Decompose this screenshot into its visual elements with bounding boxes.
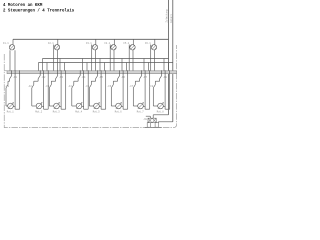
svg-text:Mot_8: Mot_8 <box>157 111 165 114</box>
svg-text:4 Motoren an KKM: 4 Motoren an KKM <box>3 4 43 8</box>
terminal strip X1 <box>4 70 176 74</box>
svg-text:Mot_1: Mot_1 <box>7 111 15 114</box>
overload contact F5.2 <box>85 81 96 106</box>
svg-text:-F4: -F4 <box>68 85 73 88</box>
svg-text:Mot_7: Mot_7 <box>137 111 145 114</box>
breaker F6.1 <box>145 39 157 50</box>
wire branch legs <box>144 59 149 71</box>
overload contact F6.2 <box>107 81 118 106</box>
contactor contact K1 <box>10 74 18 82</box>
wire breaker output pair <box>92 45 96 71</box>
motor M4 <box>75 103 83 114</box>
svg-text:2 Steuerungen / 4 Trennrelai: 2 Steuerungen / 4 Trennrelais <box>3 9 75 14</box>
svg-text:-F8: -F8 <box>149 85 154 88</box>
svg-text:F4.1: F4.1 <box>105 42 111 45</box>
breaker F1.1 <box>3 39 15 50</box>
distribution wire lower <box>39 63 173 71</box>
net label L2 <box>170 13 173 22</box>
overload contact F8.2 <box>149 81 160 106</box>
wire branch legs <box>60 59 65 71</box>
svg-text:-F2: -F2 <box>28 85 33 88</box>
wire breaker F1.1 output pair <box>10 50 15 71</box>
net label L1 <box>165 9 168 22</box>
wire motor legs <box>59 74 66 110</box>
svg-text:Mot_4: Mot_4 <box>75 111 83 114</box>
svg-text:Zuleitung: Zuleitung <box>165 9 168 22</box>
contactor contact K5 <box>96 74 104 82</box>
wire branch legs <box>164 59 169 71</box>
motor M1 <box>7 103 15 114</box>
breaker F4.1 <box>105 39 117 50</box>
svg-text:Mot_2: Mot_2 <box>35 111 43 114</box>
svg-text:F6.1: F6.1 <box>145 42 151 45</box>
breaker F5.1 <box>124 39 136 50</box>
supply line L1 <box>168 0 170 115</box>
heater X8 body <box>143 118 156 123</box>
motor M7 <box>137 103 145 114</box>
wire branch legs <box>122 59 127 71</box>
contactor contact K3 <box>56 74 64 82</box>
contactor contact K6 <box>118 74 126 82</box>
svg-text:Extern: Extern <box>170 13 173 22</box>
breaker F3.1 <box>86 39 98 50</box>
wire motor legs <box>82 74 89 110</box>
title text <box>3 4 75 14</box>
overload contact F1.2 <box>5 81 10 106</box>
svg-text:-F1: -F1 <box>5 85 10 88</box>
overload contact F2.2 <box>28 81 38 106</box>
wire branch legs <box>83 59 88 71</box>
svg-text:Mot_5: Mot_5 <box>93 111 101 114</box>
wire branch legs <box>43 59 48 71</box>
bus wire <box>13 38 169 40</box>
wire breaker output pair <box>151 45 155 71</box>
svg-text:-F7: -F7 <box>129 85 134 88</box>
svg-text:F5.1: F5.1 <box>124 42 130 45</box>
contactor contact K8 <box>160 74 168 82</box>
enclosure border <box>4 45 176 128</box>
contactor contact K7 <box>140 74 148 82</box>
wire branch legs <box>100 59 105 71</box>
motor M3 <box>53 103 61 114</box>
motor M6 <box>115 103 123 114</box>
svg-text:-X8: -X8 <box>143 118 148 121</box>
svg-text:-F3: -F3 <box>45 85 50 88</box>
supply line L2 <box>172 0 174 122</box>
wire breaker output pair <box>54 45 58 71</box>
wire motor legs <box>99 74 106 110</box>
svg-text:-F6: -F6 <box>107 85 112 88</box>
overload contact F7.2 <box>129 81 140 106</box>
breaker F2.1 <box>48 39 60 50</box>
svg-text:F3.1: F3.1 <box>86 42 92 45</box>
wire motor legs <box>42 74 49 110</box>
svg-text:-F5: -F5 <box>85 85 90 88</box>
svg-text:F2.1: F2.1 <box>48 42 54 45</box>
svg-text:Mot_6: Mot_6 <box>115 111 123 114</box>
contactor contact K2 <box>38 74 46 82</box>
overload contact F3.2 <box>45 81 56 106</box>
wire breaker output pair <box>129 45 133 71</box>
wire motor legs <box>13 74 20 110</box>
motor M2 <box>35 103 43 114</box>
contactor contact K4 <box>78 74 86 82</box>
wire breaker output pair <box>110 45 114 71</box>
distribution wire upper <box>43 58 169 60</box>
motor M5 <box>93 103 101 114</box>
heater X8 feet <box>145 123 162 128</box>
svg-text:Mot_3: Mot_3 <box>53 111 61 114</box>
overload contact F4.2 <box>68 81 79 106</box>
wire motor legs <box>163 74 170 110</box>
wire motor legs <box>121 74 128 110</box>
wire motor legs <box>143 74 150 110</box>
heater X8 leads <box>146 115 173 123</box>
svg-text:F1.1: F1.1 <box>3 42 9 45</box>
motor M8 <box>157 103 165 114</box>
